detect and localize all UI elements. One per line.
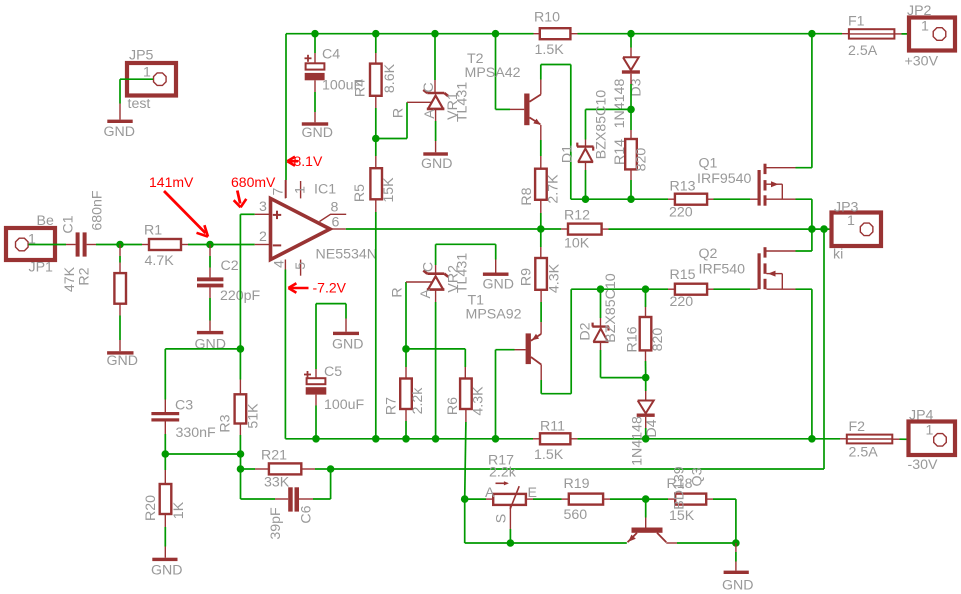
resistor R10 [540,28,571,39]
svg-text:220: 220 [670,294,694,310]
label R5 [352,184,368,202]
wire R5 to -rail [375,199,377,438]
svg-text:R13: R13 [670,179,696,195]
wire IC1 pin3 to node C [240,214,254,349]
R10 stubs [534,33,578,35]
label BD139 [672,466,688,509]
wire R21 to node G [301,468,330,470]
svg-text:JP4: JP4 [909,408,934,424]
wire R6 chain [464,349,466,379]
svg-text:3: 3 [259,199,267,215]
svg-text:R2: R2 [77,267,93,285]
value 100uF (C5) [324,397,365,413]
svg-text:560: 560 [564,507,588,523]
svg-text:5: 5 [293,262,309,270]
wire R13 to Q1 gate [714,198,758,200]
connector JP2 box [909,18,955,51]
svg-text:220: 220 [669,205,693,221]
junction node B (IC1 -input node) [206,241,214,249]
label GND (R2) [107,353,139,369]
svg-text:R6: R6 [445,397,461,415]
label R13 [670,179,696,195]
resistor R6 [460,379,472,410]
annotation 680mV text [231,174,276,190]
wire R17 to R19 [526,498,569,500]
value 15K [381,177,397,203]
svg-text:R: R [390,287,406,297]
svg-text:JP2: JP2 [907,3,932,19]
pin number 1 of JP5 [143,65,151,81]
junction R5/-rail [372,435,380,443]
resistor R12 [568,224,602,235]
wire T1 collector loop to Q2 gate line [541,289,668,394]
wire rail to T2 base [496,34,525,110]
label D1 [560,145,576,163]
junction node D [162,450,170,458]
IC1 pin 6 stub [330,228,346,230]
label R4 [353,79,369,97]
transistor Q3 collector [657,533,736,543]
wire rail to D3 [630,34,632,57]
svg-text:Q3: Q3 [690,467,706,486]
svg-text:R3: R3 [218,414,234,432]
svg-text:-30V: -30V [908,457,939,473]
svg-text:2.5A: 2.5A [848,43,878,59]
wire C6 left leg [241,469,289,499]
value IRF540 [699,262,746,278]
R11 stubs [533,438,577,440]
svg-text:ki: ki [833,247,843,263]
value 10K [564,236,590,252]
svg-text:R9: R9 [519,268,535,286]
R13 stubs [668,198,714,200]
junction R7/-rail [402,435,410,443]
transistor T1 collector [531,357,541,365]
label JP5 [129,48,154,64]
svg-text:IC1: IC1 [314,182,336,198]
svg-text:330nF: 330nF [176,425,217,441]
value MPSA92 [466,307,522,323]
label R14 [612,139,628,165]
svg-text:R4: R4 [353,79,369,97]
wire C3 bottom to node D [164,422,166,455]
pin number 1 of JP1 [28,232,36,248]
label R1 [144,223,162,239]
wire net +30V rail (right section) [578,33,843,35]
wire net +30V rail (left section, y=33.7) [286,33,534,35]
junction D4/-rail [642,435,650,443]
junction VR1/+rail [431,30,439,38]
label C2 [221,258,239,274]
wire R8 to output node [540,200,542,229]
capacitor C5 plus mark [304,371,311,378]
transistor Q3 emitter [628,533,638,543]
value NE5534N [316,247,378,263]
resistor R13 [675,194,707,205]
op-amp IC1 triangle [271,198,331,259]
pin number 1 of JP4 [926,423,934,439]
pin number 3 [259,199,267,215]
svg-text:1: 1 [921,19,929,35]
value 220pF [220,288,261,304]
svg-text:F1: F1 [848,14,865,30]
svg-text:IRF9540: IRF9540 [697,171,752,187]
capacitor C4 (polarized) [305,63,325,80]
mosfet Q1 drain pin [767,167,812,169]
value BZX85C10 (D2) [603,273,619,343]
label R7 [384,397,400,415]
wire C3 top [164,349,166,412]
label R11 [540,419,565,435]
wire Q2 drain to -rail [811,289,813,439]
junction wiper node [507,539,515,547]
wire R3 to node E [239,424,241,455]
junction node L (pot A) [461,495,469,503]
junction Q2 drain/-rail [808,435,816,443]
svg-text:2.2k: 2.2k [489,465,517,481]
junction D3/+rail [627,30,635,38]
label C4 [322,47,340,63]
svg-text:D1: D1 [560,145,576,163]
annotation -7.2V text [313,280,347,296]
ground GND at JP5 [107,120,132,123]
svg-text:R21: R21 [261,448,287,464]
resistor R16 [640,317,652,350]
junction T2 base/+rail [492,30,500,38]
wire node J to R7 [405,349,407,379]
pin label E (R17) [528,485,537,501]
value TL431 (VR1) [455,82,471,122]
value 1.5K (R11) [534,447,564,463]
label ki [833,247,843,263]
pin number 6 [332,215,340,231]
resistor R2 [114,273,126,304]
potentiometer R17 arrow [496,481,509,485]
ground GND at Q3 [724,571,749,574]
mosfet Q2 channel bars [764,247,767,289]
wire T2 collector loop to Q1 gate line [541,65,668,200]
svg-text:MPSA42: MPSA42 [465,65,521,81]
wire IC1 pin6 to output node [346,228,541,230]
transistor T1 (MPSA92) base bar [526,333,531,364]
label +30V [905,54,939,70]
annotation 141mV text [149,174,194,190]
wire R16 to node K [645,350,647,377]
junction C4/+rail [311,30,319,38]
wire JP5 pin to GND [120,79,153,119]
wire C6 right leg [299,469,331,499]
svg-text:8: 8 [331,200,339,216]
wire node I to D1 branch [586,109,632,146]
svg-text:2.2k: 2.2k [410,387,426,415]
svg-text:NE5534N: NE5534N [316,247,378,263]
wire node C to R3 [239,349,241,394]
wire net -30V rail (right section) [577,438,840,440]
connector JP5 box [127,63,176,96]
wire F2 to JP4 [892,438,933,440]
wire node H to VR1 R pin [376,102,432,138]
label T2 [467,51,484,67]
mosfet Q2 source pin [767,250,812,252]
value 4.7K [145,253,175,269]
fuse F2 [847,435,893,444]
value 4.3K (R6) [471,386,487,416]
transistor T2 emitter [530,118,541,125]
wire R4 to node H [375,96,377,139]
svg-text:IRF540: IRF540 [699,262,746,278]
value 100uF (C4) [322,78,363,94]
svg-text:1N4148: 1N4148 [612,79,628,129]
wire gate line to D2 [600,289,602,326]
svg-text:BD139: BD139 [672,466,688,509]
IC1 pin 5 stub [300,260,302,276]
svg-text:33K: 33K [264,475,290,491]
wire D3 to node I [630,74,632,110]
wire T2 emitter to R8 [540,125,542,169]
svg-text:JP5: JP5 [129,48,154,64]
label GND (C4) [302,125,334,141]
wire R20 to GND [164,514,166,558]
connector JP1 box [6,228,55,260]
pin number 1 of IC1 [293,186,309,194]
value 1N4148 (D4) [630,416,646,466]
connector JP5 pin 1 octagon [154,73,167,86]
svg-text:1: 1 [293,186,309,194]
junction Q1/Q2 source node [808,225,816,233]
svg-text:R8: R8 [519,187,535,205]
potentiometer R17 body [493,494,526,505]
connector JP3 box [832,213,882,247]
wire C2 to GND [209,287,211,331]
wire VR2 cathode to GND [436,244,496,273]
label F2 [849,419,866,435]
wire R14 to gate line [630,169,632,199]
label D4 [644,419,660,437]
wire R6 to node L [465,409,466,499]
connector JP4 box [909,422,956,456]
label C1 [61,215,77,233]
svg-text:C1: C1 [61,215,77,233]
svg-text:+30V: +30V [905,54,939,70]
wire D2 to node K [601,342,646,378]
svg-text:GND: GND [302,125,334,141]
pin label C (VR2) [421,262,437,272]
label IC1 [314,182,336,198]
svg-text:GND: GND [104,124,136,140]
junction feedback node [820,225,828,233]
wire output to JP3 [824,228,860,230]
value 1N4148 (D3) [612,79,628,129]
svg-text:R11: R11 [540,419,565,435]
junction node E [237,450,245,458]
svg-text:1K: 1K [171,501,187,519]
label C6 [299,505,315,523]
pin label C (VR1) [421,82,437,92]
resistor R20 [160,484,172,514]
annotation 8.1V arrow [287,157,298,166]
svg-text:R19: R19 [564,476,590,492]
value 47K [62,266,78,292]
IC1 pin 7 stub [284,180,286,198]
label JP1 [29,260,54,276]
wire C5 bottom to -rail [315,395,317,439]
resistor R14 [625,139,637,169]
wire rail stub to F1 [842,33,849,35]
op-amp IC1 plus mark [273,211,281,219]
svg-text:TL431: TL431 [455,82,471,122]
connector JP1 pin 1 octagon [16,238,29,251]
capacitor C2 [197,277,223,287]
svg-text:R12: R12 [564,208,590,224]
wire node M to R18 [646,498,676,500]
svg-text:R16: R16 [625,326,641,352]
IC1 pin 8 stub [320,214,347,221]
label R21 [261,448,287,464]
op-amp IC1 minus mark [273,244,281,246]
mosfet Q1 channel bars [764,164,767,206]
svg-text:15K: 15K [381,177,397,203]
fuse F1 [849,29,895,38]
value 2.5A (F1) [848,43,878,59]
wire R9 to T1 emitter [540,290,542,334]
label GND (VR2) [483,277,515,293]
value 8.6K [382,63,398,93]
wire R19 to node M [603,498,646,500]
svg-text:GND: GND [195,337,227,353]
pin number 5 [293,262,309,270]
value 220 (R13) [669,205,693,221]
wire VR1 anode to GND [435,109,437,152]
svg-text:680mV: 680mV [231,174,276,190]
wire node J line [406,348,465,350]
pin number 8 [331,200,339,216]
annotation 680mV arrow [234,191,247,208]
svg-text:MPSA92: MPSA92 [466,307,522,323]
transistor T2 (MPSA42) base bar [524,94,529,126]
ground GND at VR2 [483,273,509,276]
svg-text:2: 2 [259,229,267,245]
label Q3 [690,467,706,486]
wire D1 to Q1 gate line [585,162,587,199]
ground GND at R20 [152,558,177,561]
label C5 [324,364,342,380]
junction D1/gate line [582,195,590,203]
label R10 [534,10,560,26]
label GND (VR1) [421,156,453,172]
resistor R5 [370,168,382,199]
junction node M (Q3 base) [642,495,650,503]
zener diode D1 (BZX85C10) [577,143,594,162]
svg-text:GND: GND [483,277,515,293]
wire VR2 R pin [406,282,432,349]
wire VR2 anode to -rail [435,290,437,439]
junction node K (D2/R16/D4) [642,374,650,382]
mosfet Q2 (IRF540) gate bar [758,253,761,289]
junction node J (VR2 ref node) [402,345,410,353]
shunt regulator VR2 (TL431) [423,271,448,290]
label F1 [848,14,865,30]
svg-text:C3: C3 [175,398,193,414]
wire C4 top [314,34,316,64]
R15 stubs [668,288,714,290]
mosfet Q1 source pin [767,198,812,200]
svg-text:R: R [391,108,407,118]
label Q1 [699,156,718,172]
value 51K [246,403,262,429]
junction D2/gate line [597,285,605,293]
label R19 [564,476,590,492]
label Q2 [699,246,718,262]
label GND (C2) [195,337,227,353]
label R18 [667,476,693,492]
svg-text:8.6K: 8.6K [382,63,398,93]
junction R4/+rail [372,30,380,38]
zener diode D2 (BZX85C10) [592,323,609,342]
value 2.7K [546,174,562,204]
wire node D to node E [165,453,240,455]
svg-text:Be: Be [37,213,54,229]
wire C5 top to GND [316,304,346,379]
value 33K [264,475,290,491]
wire Q2 source to output node [811,229,813,251]
label R3 [218,414,234,432]
svg-text:141mV: 141mV [149,174,194,190]
wire node D to R20 [164,454,166,484]
junction T1 base/-rail [492,435,500,443]
mosfet Q2 drain pin [767,288,812,290]
wire node L to R17 [465,498,494,500]
resistor R18 [675,494,706,505]
resistor R3 [235,394,247,423]
value 820 (R16) [650,328,666,352]
junction node A (input node at R2) [116,241,124,249]
IC1 pin 1 stub [300,181,302,198]
value 4.3K (R9) [547,263,563,293]
IC1 pin 2 stub [255,244,271,246]
svg-text:C6: C6 [299,505,315,523]
wire IC1 pin7 to +rail [285,34,287,198]
svg-text:C5: C5 [324,364,342,380]
svg-text:Q2: Q2 [699,246,718,262]
transistor T2 collector [530,80,541,102]
svg-text:1: 1 [143,65,151,81]
label R17 [488,453,514,469]
junction VR2/-rail [432,435,440,443]
annotation 8.1V text [294,153,323,169]
shunt regulator VR1 (TL431) [423,90,448,109]
wire R1 to node B [181,244,210,246]
resistor R4 [370,64,382,96]
connector JP3 pin 1 octagon [860,223,873,236]
resistor R11 [540,433,570,444]
annotation 141mV arrow [164,191,208,237]
svg-text:1.5K: 1.5K [535,42,565,58]
value 39pF [268,507,284,540]
value 1K [171,501,187,519]
label VR1 [445,92,461,120]
wire node K to D4 [645,378,647,401]
junction node C (feedback divider) [237,345,245,353]
svg-text:GND: GND [722,578,754,594]
junction node F (R21 left) [237,465,245,473]
transistor Q3 (BD139) base bar [632,528,663,533]
capacitor C4 plus mark [305,55,312,62]
label R12 [564,208,590,224]
svg-text:1.5K: 1.5K [534,447,564,463]
svg-text:820: 820 [650,328,666,352]
label C3 [175,398,193,414]
svg-text:R7: R7 [384,397,400,415]
